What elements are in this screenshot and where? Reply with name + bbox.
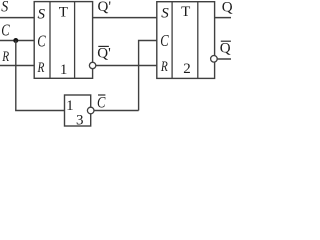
wire Q-bar output bbox=[214, 58, 231, 60]
svg-text:Q': Q' bbox=[97, 46, 111, 62]
svg-text:C: C bbox=[37, 32, 46, 51]
svg-text:R: R bbox=[1, 49, 9, 65]
bubble on U2 Q-bar output bbox=[211, 56, 218, 63]
U2 divider left bbox=[171, 2, 173, 79]
overline of C-bar bbox=[98, 94, 105, 96]
svg-text:S: S bbox=[38, 6, 46, 22]
wire R input bbox=[0, 65, 34, 67]
wire Q' to S of FF2 bbox=[93, 17, 157, 19]
U2 divider right bbox=[197, 2, 199, 79]
wire Q output bbox=[215, 17, 231, 19]
svg-text:C: C bbox=[97, 95, 106, 112]
node C junction dot bbox=[13, 38, 18, 43]
svg-text:R: R bbox=[160, 59, 168, 75]
svg-text:2: 2 bbox=[183, 61, 191, 77]
wire C-bar output of inverter bbox=[91, 110, 139, 112]
U1 divider right bbox=[74, 2, 76, 79]
svg-text:R: R bbox=[37, 60, 45, 76]
svg-text:T: T bbox=[181, 4, 190, 20]
wire C input bbox=[0, 40, 34, 42]
overline of Q-bar bbox=[221, 40, 231, 42]
svg-text:T: T bbox=[59, 5, 68, 21]
svg-text:C: C bbox=[160, 31, 169, 50]
bubble on U1 Q-bar' output bbox=[89, 62, 95, 68]
bubble on U3 output bbox=[87, 107, 94, 114]
flip-flop U1 box bbox=[34, 2, 92, 79]
svg-text:C: C bbox=[1, 21, 10, 40]
flip-flop U2 box bbox=[157, 2, 215, 79]
wire C-bar riser to C of FF2 bbox=[139, 41, 157, 111]
svg-text:S: S bbox=[1, 0, 8, 15]
U1 divider left bbox=[49, 2, 51, 79]
wire C branch horizontal to inverter bbox=[15, 110, 64, 112]
svg-text:1: 1 bbox=[66, 98, 74, 114]
inverter U3 box bbox=[65, 95, 91, 126]
overline of Q-bar' bbox=[98, 45, 109, 47]
svg-text:S: S bbox=[161, 6, 169, 22]
svg-text:Q': Q' bbox=[98, 0, 112, 15]
svg-text:Q: Q bbox=[222, 0, 233, 15]
svg-text:3: 3 bbox=[76, 112, 84, 128]
wire S input bbox=[0, 17, 34, 19]
wire C branch vertical bbox=[15, 41, 17, 111]
svg-text:Q: Q bbox=[220, 40, 231, 56]
wire Q-bar' to R of FF2 bbox=[93, 65, 157, 67]
svg-text:1: 1 bbox=[60, 62, 68, 78]
